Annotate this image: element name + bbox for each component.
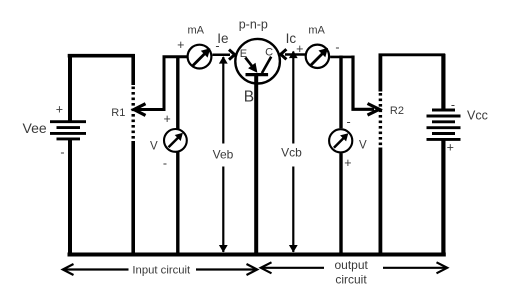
svg-text:p-n-p: p-n-p	[239, 18, 268, 32]
svg-text:-: -	[347, 115, 351, 129]
wire: left ammeter to emitter with arrowhead into E	[213, 50, 235, 60]
wire: corner down to R2 wiper level with arrow into R2	[353, 56, 379, 116]
svg-text:+: +	[344, 156, 351, 170]
wire: wiper riser to top node and across to left ammeter	[164, 57, 187, 111]
svg-text:-: -	[451, 98, 455, 112]
svg-text:mA: mA	[308, 24, 325, 36]
svg-text:+: +	[296, 42, 303, 56]
svg-text:E: E	[240, 48, 247, 60]
svg-text:C: C	[265, 47, 273, 59]
svg-text:B: B	[244, 88, 254, 105]
transistor Q1 (p-n-p BJT in circle, base down)	[235, 39, 280, 84]
svg-text:Vcb: Vcb	[281, 146, 302, 160]
svg-text:-: -	[163, 156, 167, 170]
svg-text:+: +	[164, 112, 171, 126]
svg-text:-: -	[60, 146, 64, 160]
measurement arrow: Input circuit span	[63, 264, 257, 275]
voltmeter V (right): circle and needle	[329, 129, 352, 152]
svg-text:Veb: Veb	[213, 148, 234, 162]
svg-text:V: V	[359, 140, 367, 152]
wire: left voltmeter branch (top node down to meter, meter to bus)	[176, 56, 179, 257]
wire: Vee positive lead (vertical from top wire to battery)	[68, 54, 72, 122]
wire: Vcc positive lead to bottom bus	[441, 139, 445, 256]
measurement arrow Vcb (double-headed vertical)	[289, 51, 298, 253]
wire: collector to right ammeter with arrowhead into C	[281, 49, 305, 59]
wire: right voltmeter branch (node down to meter, meter to bus)	[339, 56, 342, 257]
measurement arrow: output circuit span	[261, 262, 447, 273]
wire: bottom bus (common rail)	[68, 253, 446, 257]
svg-text:Vee: Vee	[23, 120, 47, 136]
svg-text:+: +	[177, 38, 184, 52]
svg-text:Ic: Ic	[286, 31, 297, 46]
battery Vee	[50, 122, 86, 139]
svg-text:Input circuit: Input circuit	[132, 265, 191, 277]
wire: Vee negative lead to bottom bus	[68, 139, 72, 257]
svg-text:+: +	[56, 103, 63, 117]
svg-text:R2: R2	[390, 105, 404, 117]
battery Vcc	[427, 110, 461, 139]
svg-text:Vcc: Vcc	[467, 109, 488, 123]
svg-text:V: V	[150, 140, 158, 152]
svg-text:R1: R1	[111, 107, 125, 119]
voltmeter V (left): circle and needle	[164, 129, 187, 152]
svg-text:-: -	[335, 41, 339, 55]
wire: top-left horizontal (Vee + terminal to R1 top)	[68, 54, 135, 58]
resistor R1 (potentiometer track: solid-dotted-solid vertical)	[131, 54, 135, 257]
wire: base lead down to bottom bus	[254, 75, 258, 257]
svg-text:Ie: Ie	[217, 31, 228, 46]
wire: right ammeter across top node to corner	[330, 56, 354, 59]
wiper arrow of R1 (tap arrow pointing left into track)	[134, 104, 165, 116]
svg-text:mA: mA	[187, 25, 204, 37]
ammeter mA (right): circle and needle	[306, 45, 329, 68]
svg-text:+: +	[447, 140, 454, 154]
wire: top-right horizontal (R2 top to Vcc - terminal)	[379, 53, 446, 56]
resistor R2 (potentiometer track: solid-dotted-solid vertical)	[378, 54, 382, 257]
svg-text:circuit: circuit	[335, 272, 367, 286]
measurement arrow Veb (double-headed vertical)	[219, 56, 228, 252]
wire: Vcc negative lead (vertical from top wire to battery)	[441, 54, 445, 110]
svg-text:output: output	[335, 258, 369, 272]
ammeter mA (left): circle and needle	[188, 45, 212, 69]
